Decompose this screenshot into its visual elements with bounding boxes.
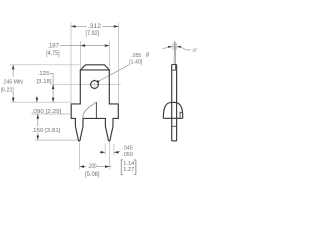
svg-text:[4.75]: [4.75] [46, 50, 60, 57]
extension line .187 right [108, 41, 110, 68]
side view right edge [176, 65, 178, 141]
svg-text:[5.08]: [5.08] [85, 171, 100, 178]
svg-text:.125: .125 [38, 71, 50, 77]
extension line .187 left [80, 41, 82, 68]
angle dimension right arrow leader [180, 47, 190, 50]
svg-text:[3.18]: [3.18] [37, 79, 53, 85]
side view dome step [180, 112, 183, 118]
svg-text:.055: .055 [131, 53, 141, 59]
extension line seating plane [11, 101, 70, 103]
angle extension tick right [175, 43, 177, 50]
side view chamfer line [172, 69, 177, 71]
extension line .200 right [109, 143, 111, 170]
hole centerline horizontal [51, 84, 121, 86]
front view body outline [71, 65, 118, 141]
extension line .312 right [117, 23, 119, 104]
svg-text:.150 [3.81]: .150 [3.81] [31, 128, 61, 134]
dimension .090 top arrow [36, 96, 38, 103]
svg-text:.090 [2.29]: .090 [2.29] [32, 109, 62, 115]
front view hole [91, 81, 99, 89]
hole centerline vertical [94, 79, 96, 90]
front view dimple edge vertical [95, 102, 97, 119]
side view dome bottom line [163, 117, 183, 119]
svg-text:1.27: 1.27 [123, 167, 134, 173]
extension line .312 left [70, 23, 72, 104]
extension line .045 left [104, 144, 106, 156]
dimension .125 leader [50, 73, 53, 102]
svg-text:[7.92]: [7.92] [86, 30, 100, 37]
side view left edge [171, 65, 173, 141]
extension line leg tip [35, 139, 78, 141]
svg-text:.187: .187 [47, 43, 59, 50]
label limits bracket block [121, 160, 136, 175]
side view leg taper tick [172, 125, 177, 127]
side view dome [163, 102, 183, 118]
extension line .200 left [79, 143, 81, 170]
dimension .200 line [80, 166, 87, 168]
hole leader dot [97, 80, 99, 82]
side view needle taper left [173, 41, 176, 64]
extension line board plane [31, 113, 70, 115]
svg-text:.045: .045 [122, 146, 133, 152]
hole leader line [98, 65, 129, 82]
label .150 [3.81] [31, 127, 61, 133]
svg-text:.050: .050 [122, 152, 133, 158]
side view leg bottom [172, 140, 177, 142]
front view chamfer line [80, 69, 109, 71]
svg-text:.200: .200 [88, 163, 97, 170]
extension line blade top [10, 64, 80, 66]
dimension .245 MIN line [12, 65, 14, 77]
dimension .045/.050 arrows [99, 151, 105, 153]
dimension .150 line [37, 114, 39, 140]
svg-text:[6.22]: [6.22] [1, 87, 14, 93]
svg-text:.312: .312 [88, 23, 102, 30]
side view chamfer inner edge [175, 65, 177, 71]
svg-text:.245 MIN: .245 MIN [2, 79, 22, 85]
side view cap line [172, 64, 177, 66]
angle extension tick left [172, 43, 174, 50]
side view needle taper right [174, 41, 177, 64]
front view dimple arc [83, 102, 97, 118]
angle dimension left arrow [162, 47, 168, 49]
svg-text:[1.40]: [1.40] [129, 59, 143, 65]
extension line .045 right [113, 144, 115, 156]
dimension .312 line [71, 25, 87, 27]
dimension .187 line [60, 45, 109, 47]
svg-text:10°: 10° [192, 47, 198, 52]
